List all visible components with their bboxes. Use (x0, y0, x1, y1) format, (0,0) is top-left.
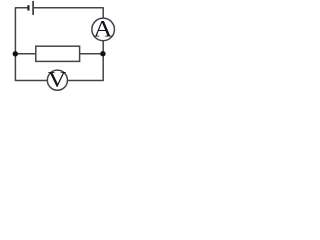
resistor R1 (36, 46, 80, 61)
node: junction dot left (13, 51, 18, 56)
wire: top-right segment and right vertical down to ammeter (33, 8, 103, 19)
ammeter U1 label A (93, 17, 112, 42)
wire: middle horizontal left (junction to resistor) (15, 53, 36, 55)
wire: middle horizontal right (resistor to junction) (79, 53, 103, 55)
svg-text:A: A (93, 17, 112, 42)
voltmeter U2 circle (47, 70, 67, 90)
node: junction dot right (100, 51, 105, 56)
ammeter U1 circle (92, 18, 115, 41)
wire: right vertical from ammeter through junction, bottom-right corner to voltmeter (67, 40, 103, 80)
wire: top-left segment, left vertical, bottom-left segment (to voltmeter) (15, 8, 47, 81)
voltmeter U2 label V (48, 68, 67, 92)
battery B1 long plate (positive) (32, 1, 34, 15)
svg-text:V: V (48, 68, 67, 92)
battery B1 short plate (negative) (27, 5, 29, 10)
